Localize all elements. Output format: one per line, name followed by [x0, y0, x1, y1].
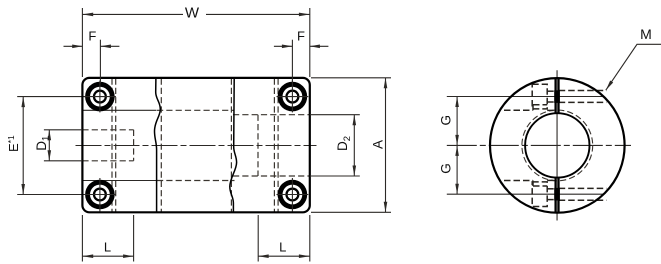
svg-text:F: F [88, 29, 96, 44]
svg-text:M: M [640, 26, 652, 42]
svg-text:W: W [185, 5, 200, 22]
svg-text:A: A [370, 140, 385, 149]
svg-text:G: G [439, 115, 454, 126]
svg-text:F: F [297, 29, 305, 44]
svg-text:G: G [439, 163, 454, 174]
svg-text:L: L [279, 240, 286, 255]
svg-text:L: L [104, 240, 111, 255]
